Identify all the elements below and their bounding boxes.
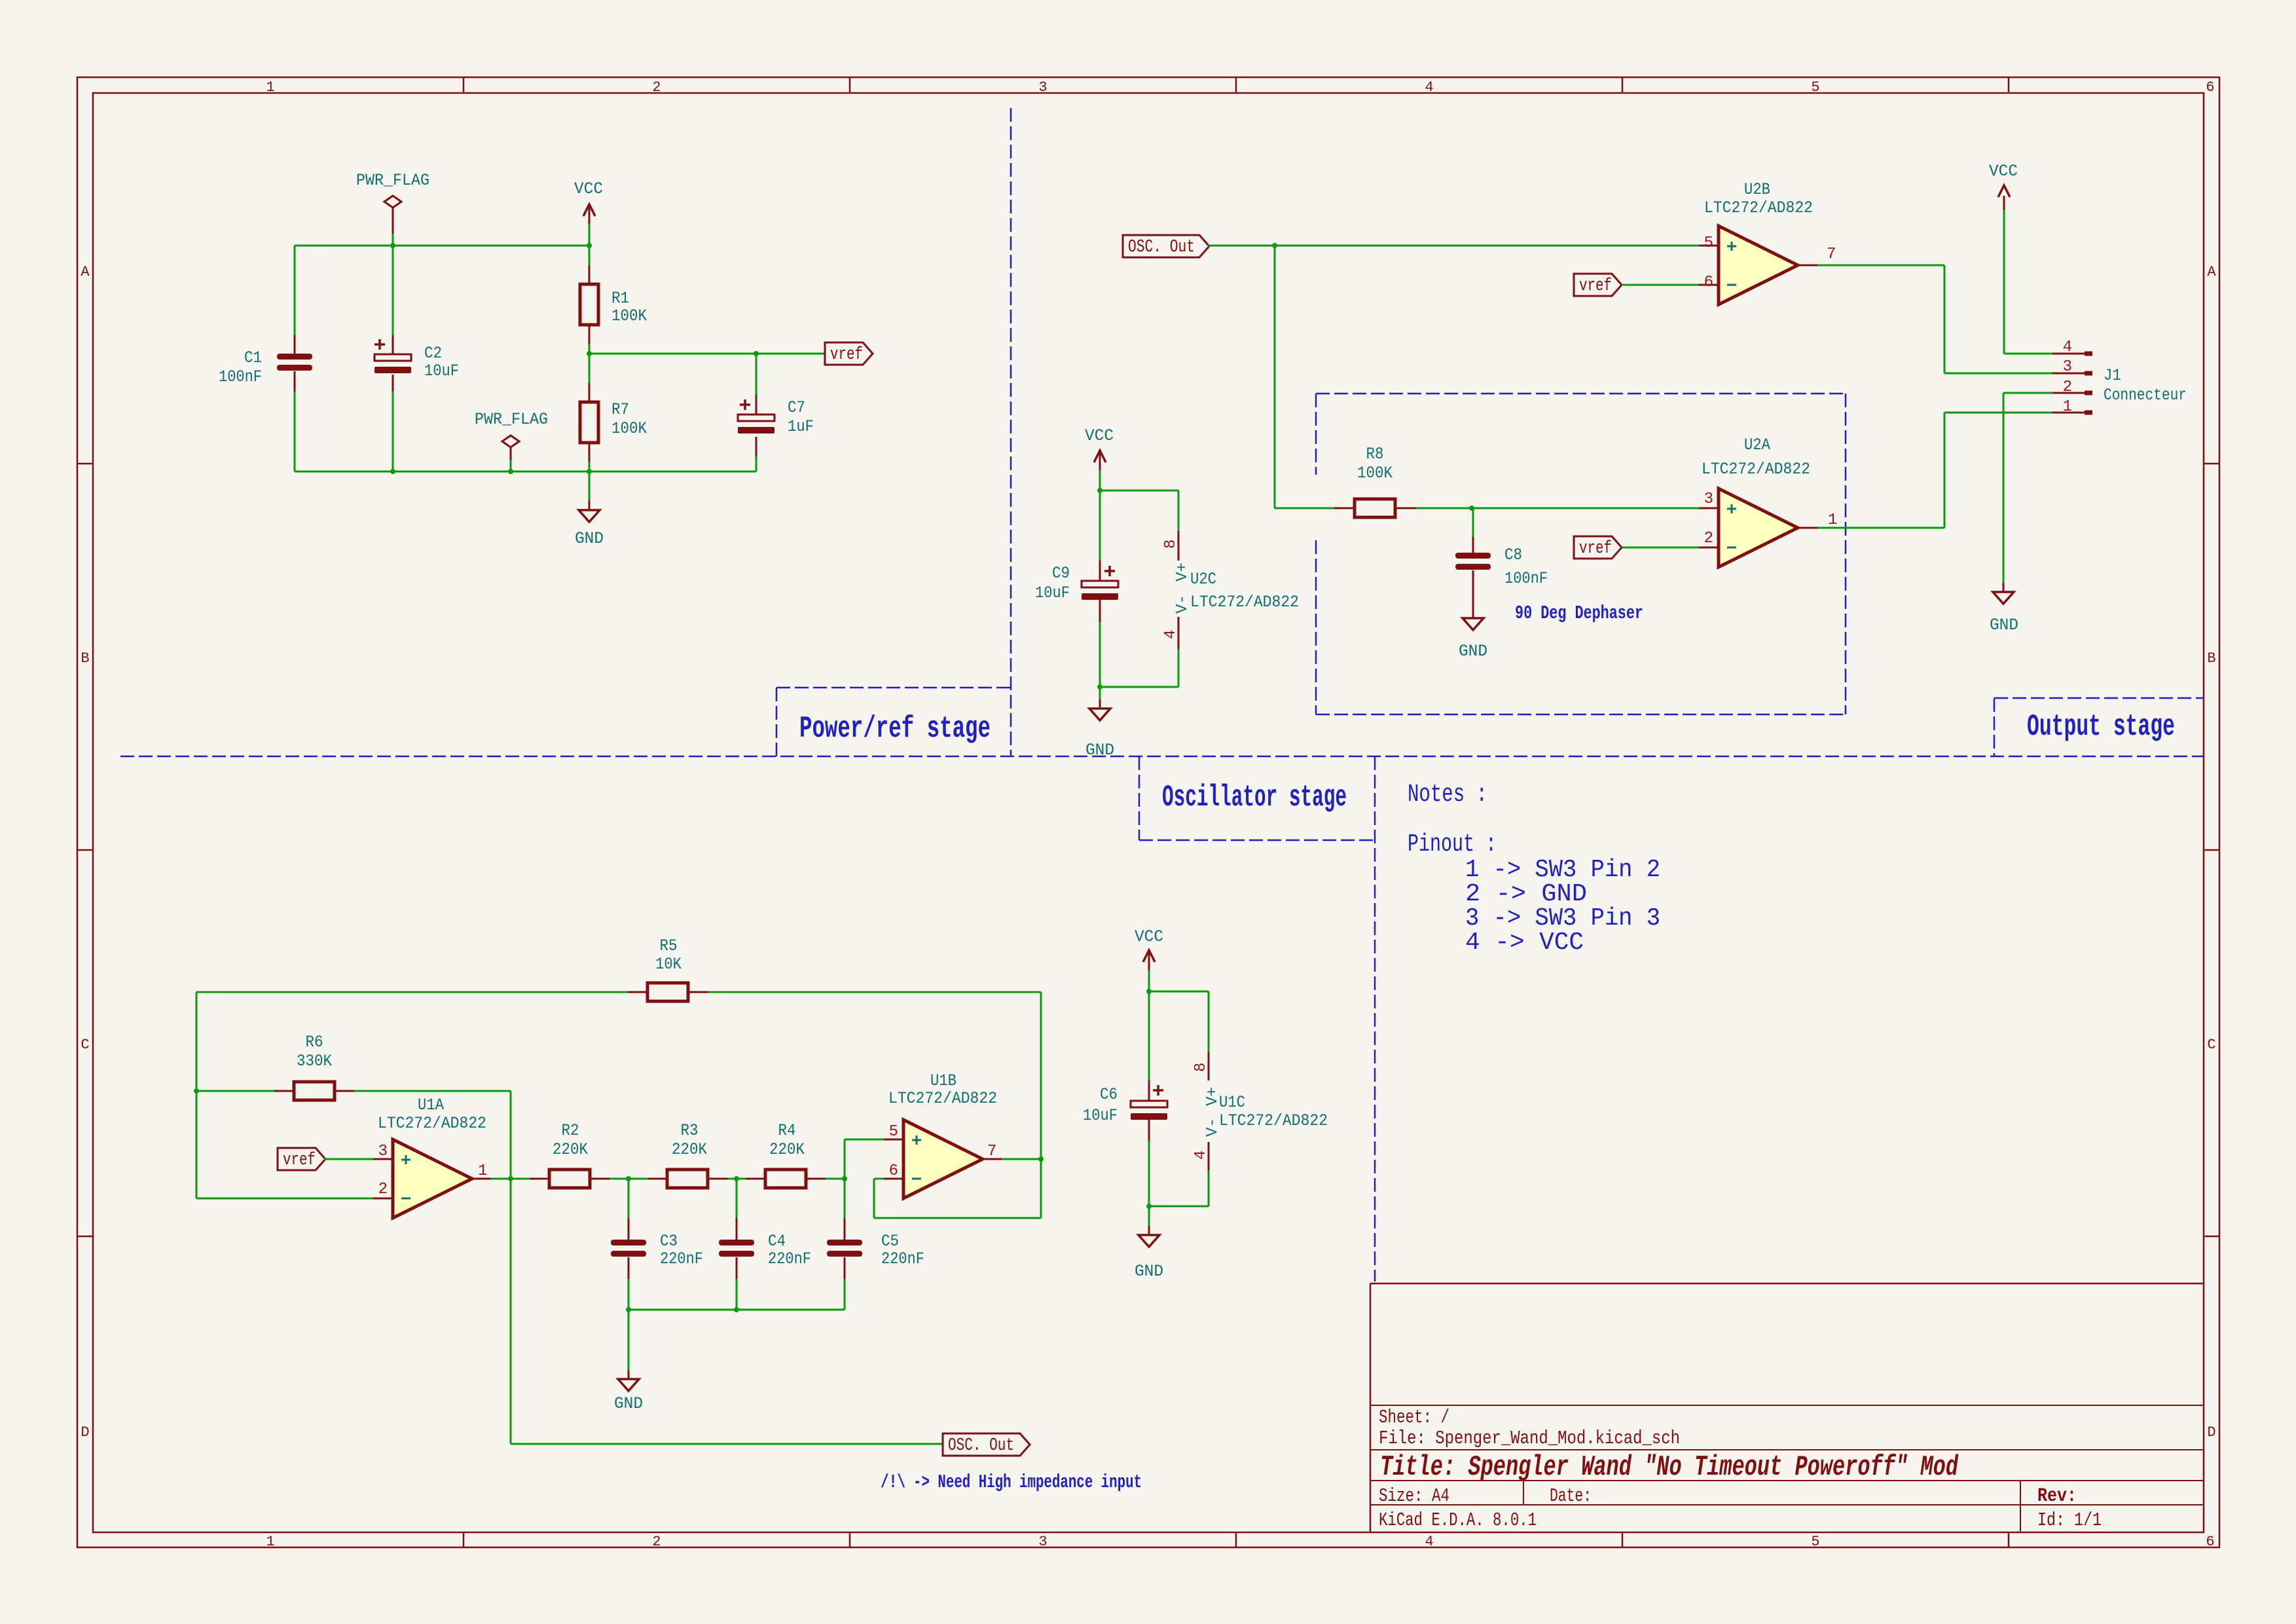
wire vref rail [589, 353, 825, 355]
svg-text:KiCad E.D.A. 8.0.1: KiCad E.D.A. 8.0.1 [1379, 1509, 1537, 1531]
op-amp U2C power pins [1162, 531, 1299, 649]
wire VCC top rail [295, 245, 589, 247]
svg-text:U2C: U2C [1190, 570, 1216, 589]
svg-text:GND: GND [575, 529, 604, 548]
svg-text:A: A [2207, 264, 2216, 280]
power symbol VCC J1 [1989, 162, 2018, 354]
svg-text:8: 8 [1162, 540, 1180, 549]
resistor R7 [580, 354, 647, 471]
svg-text:U1C: U1C [1219, 1093, 1245, 1112]
resistor R4 [746, 1121, 845, 1188]
svg-text:5: 5 [889, 1123, 898, 1141]
svg-text:4: 4 [2063, 339, 2072, 356]
op-amp U1A [373, 1096, 491, 1218]
svg-text:6: 6 [889, 1162, 898, 1180]
svg-text:U1B: U1B [930, 1071, 957, 1090]
resistor R3 [648, 1121, 746, 1188]
wire U1B output and feedback [874, 992, 1041, 1218]
svg-text:7: 7 [1827, 246, 1836, 263]
svg-text:C6: C6 [1100, 1085, 1118, 1104]
svg-text:R5: R5 [660, 936, 678, 955]
svg-text:8: 8 [1192, 1063, 1210, 1072]
svg-text:1: 1 [2063, 398, 2072, 416]
node junction R8 C8 [1469, 506, 1474, 511]
node junction U1B output [1038, 1156, 1044, 1162]
svg-text:LTC272/AD822: LTC272/AD822 [1190, 593, 1299, 612]
svg-text:OSC. Out: OSC. Out [1128, 238, 1195, 257]
resistor R8 [1334, 445, 1699, 517]
svg-text:D: D [2207, 1424, 2215, 1441]
ground symbol GND C9 [1085, 687, 1114, 760]
node junctions C9 [1097, 488, 1102, 690]
svg-text:V-: V- [1174, 595, 1192, 614]
svg-text:1: 1 [478, 1162, 487, 1180]
resistor R6 [196, 1033, 511, 1179]
capacitor C2 [374, 246, 459, 471]
wire U1A output node [491, 1179, 943, 1444]
resistor R5 [628, 936, 708, 1001]
svg-text:5: 5 [1811, 1534, 1819, 1550]
capacitor C1 [219, 246, 312, 471]
svg-text:2: 2 [652, 1534, 661, 1550]
svg-text:LTC272/AD822: LTC272/AD822 [1704, 198, 1813, 217]
resistor R1 [580, 246, 647, 354]
svg-text:vref: vref [283, 1151, 316, 1170]
svg-text:90 Deg Dephaser: 90 Deg Dephaser [1515, 602, 1643, 624]
svg-text:D: D [81, 1424, 89, 1441]
svg-text:220K: 220K [769, 1140, 805, 1159]
svg-text:File: Spenger_Wand_Mod.kicad_s: File: Spenger_Wand_Mod.kicad_sch [1379, 1428, 1680, 1449]
global label vref U1A [278, 1148, 325, 1170]
op-amp U2A [1699, 435, 1837, 567]
svg-text:U2A: U2A [1744, 435, 1770, 454]
svg-text:7: 7 [987, 1143, 996, 1160]
svg-text:C1: C1 [244, 348, 262, 367]
op-amp U2B [1699, 180, 1836, 304]
svg-text:GND: GND [614, 1394, 643, 1413]
svg-text:OSC. Out: OSC. Out [948, 1436, 1014, 1456]
svg-text:LTC272/AD822: LTC272/AD822 [1219, 1111, 1328, 1130]
capacitor C7 [738, 354, 814, 471]
svg-text:Rev:: Rev: [2037, 1485, 2077, 1507]
power flag PWR_FLAG 1 [356, 171, 429, 246]
svg-text:GND: GND [1459, 642, 1487, 661]
svg-text:R3: R3 [681, 1121, 699, 1140]
ground symbol GND C6 [1135, 1206, 1163, 1281]
svg-text:3: 3 [2063, 358, 2072, 376]
svg-text:6: 6 [2206, 79, 2214, 96]
svg-text:R2: R2 [562, 1121, 579, 1140]
svg-text:5: 5 [1811, 79, 1819, 96]
capacitor C9 [1035, 490, 1118, 687]
wire R5 feedback rail [196, 992, 1041, 1198]
svg-text:Output stage: Output stage [2027, 710, 2175, 744]
wire U1C supply loop [1149, 991, 1209, 1206]
svg-text:4: 4 [1192, 1151, 1210, 1160]
svg-text:VCC: VCC [1989, 162, 2018, 181]
svg-text:VCC: VCC [574, 179, 603, 198]
capacitor C3 [611, 1179, 703, 1310]
svg-text:LTC272/AD822: LTC272/AD822 [378, 1114, 486, 1133]
svg-text:B: B [81, 650, 89, 667]
svg-text:Power/ref stage: Power/ref stage [799, 712, 991, 746]
svg-text:220nF: 220nF [768, 1249, 811, 1268]
svg-text:vref: vref [1579, 539, 1612, 559]
svg-text:LTC272/AD822: LTC272/AD822 [1702, 460, 1810, 479]
global label OSC. Out input [1123, 235, 1209, 257]
svg-text:C: C [2207, 1037, 2215, 1053]
svg-text:2: 2 [1704, 530, 1713, 547]
svg-text:B: B [2207, 650, 2215, 667]
global label vref source [825, 342, 873, 365]
svg-text:C4: C4 [768, 1232, 786, 1251]
global label vref U2B [1574, 274, 1622, 296]
svg-text:330K: 330K [297, 1052, 332, 1071]
svg-text:1uF: 1uF [788, 417, 814, 436]
svg-text:PWR_FLAG: PWR_FLAG [475, 410, 548, 429]
wire cap ground rail [629, 1309, 845, 1311]
svg-text:10K: 10K [655, 955, 682, 974]
svg-text:GND: GND [1135, 1262, 1163, 1281]
wire to U1B pin 5 [845, 1139, 884, 1179]
connector J1 [2052, 339, 2187, 416]
svg-text:vref: vref [1579, 276, 1612, 296]
wire U2A output to J1 pin 1 [1817, 413, 2052, 528]
node junction R6 [194, 1088, 199, 1094]
svg-text:3: 3 [1704, 490, 1713, 508]
global label vref U2A [1574, 536, 1622, 559]
svg-text:R7: R7 [611, 400, 629, 419]
svg-text:10uF: 10uF [1083, 1106, 1118, 1125]
svg-text:1: 1 [266, 1534, 274, 1550]
wire J1 pin 2 to GND [2003, 393, 2052, 583]
svg-text:C7: C7 [788, 398, 805, 417]
op-amp U1C power pins [1192, 1052, 1328, 1170]
power symbol VCC 3 [1135, 927, 1163, 991]
capacitor C5 [827, 1179, 924, 1310]
capacitor C8 [1455, 508, 1548, 618]
wire U2C supply loop [1100, 490, 1178, 687]
wire VCC to J1 pin 4 [2004, 353, 2052, 355]
title block [1370, 1283, 2204, 1532]
svg-text:100K: 100K [1357, 464, 1393, 483]
90 deg dephaser dashed box [1316, 394, 1846, 714]
svg-text:C8: C8 [1504, 545, 1522, 564]
svg-text:Size: A4: Size: A4 [1379, 1485, 1449, 1507]
svg-text:R8: R8 [1366, 445, 1384, 464]
ground symbol GND C3 [614, 1310, 643, 1413]
resistor R2 [530, 1121, 648, 1188]
capacitor C4 [719, 1179, 811, 1310]
svg-text:Connecteur: Connecteur [2104, 386, 2187, 405]
node junctions RC chain [508, 1176, 847, 1312]
svg-text:100nF: 100nF [219, 367, 262, 386]
wire vref to U2A pin 2 [1622, 547, 1699, 549]
svg-text:C9: C9 [1052, 564, 1070, 583]
svg-text:3: 3 [1038, 1534, 1047, 1550]
svg-text:4: 4 [1425, 79, 1433, 96]
power symbol VCC 2 [1085, 426, 1114, 490]
svg-text:100K: 100K [611, 419, 647, 438]
svg-text:220nF: 220nF [660, 1249, 703, 1268]
svg-text:R4: R4 [778, 1121, 796, 1140]
svg-text:C2: C2 [424, 344, 442, 363]
svg-text:1: 1 [1828, 511, 1837, 529]
svg-text:220K: 220K [553, 1140, 588, 1159]
svg-text:1: 1 [266, 79, 274, 96]
ground symbol GND J1 [1990, 583, 2018, 635]
wire GND bottom rail [295, 471, 756, 473]
wire vref to U1A pin 3 [324, 1158, 373, 1160]
svg-text:Oscillator stage: Oscillator stage [1162, 781, 1347, 815]
svg-text:6: 6 [1704, 274, 1713, 291]
capacitor C6 [1083, 991, 1167, 1206]
svg-text:10uF: 10uF [1035, 583, 1070, 602]
svg-text:PWR_FLAG: PWR_FLAG [356, 171, 429, 190]
svg-text:220nF: 220nF [881, 1249, 924, 1268]
svg-text:C3: C3 [660, 1232, 678, 1251]
wire OSC out to U2B pin 5 [1208, 245, 1699, 247]
ground symbol GND 1 [575, 471, 604, 548]
svg-text:Date:: Date: [1550, 1485, 1592, 1507]
ground symbol GND C8 [1459, 609, 1487, 661]
svg-text:C: C [81, 1037, 89, 1053]
svg-text:U1A: U1A [418, 1096, 444, 1115]
power flag PWR_FLAG 2 [475, 410, 548, 471]
stage labels [799, 602, 2175, 815]
node junctions power stage [390, 243, 759, 474]
high impedance warning note [881, 1471, 1142, 1493]
svg-text:2: 2 [2063, 378, 2072, 396]
svg-text:5: 5 [1704, 234, 1713, 252]
notes text [1408, 781, 1660, 957]
svg-text:10uF: 10uF [424, 361, 459, 380]
svg-text:4: 4 [1425, 1534, 1433, 1550]
svg-text:vref: vref [830, 345, 863, 365]
svg-text:220K: 220K [672, 1140, 707, 1159]
svg-text:V+: V+ [1174, 563, 1192, 581]
power symbol VCC 1 [574, 179, 603, 246]
node junction osc [1272, 243, 1277, 248]
svg-text:R1: R1 [611, 289, 629, 308]
wire U2B output to J1 pin 3 [1817, 265, 2052, 373]
svg-text:Notes :: Notes : [1408, 781, 1487, 809]
stage separator dashed lines [120, 108, 2203, 1282]
svg-text:J1: J1 [2104, 366, 2121, 385]
svg-text:3: 3 [1038, 79, 1047, 96]
svg-text:Id: 1/1: Id: 1/1 [2037, 1509, 2102, 1531]
svg-text:-> Need High impedance input: -> Need High impedance input [913, 1471, 1142, 1493]
svg-text:Title: Spengler Wand "No Timeo: Title: Spengler Wand "No Timeout Powerof… [1380, 1451, 1959, 1484]
svg-text:2: 2 [378, 1181, 388, 1198]
svg-text:U2B: U2B [1744, 180, 1770, 199]
svg-text:GND: GND [1990, 616, 2018, 635]
node junctions C6 [1146, 989, 1152, 1209]
svg-text:VCC: VCC [1085, 426, 1114, 445]
svg-text:Sheet: /: Sheet: / [1379, 1407, 1449, 1428]
svg-text:6: 6 [2206, 1534, 2214, 1550]
op-amp U1B [884, 1071, 1002, 1198]
svg-text:3: 3 [378, 1143, 388, 1160]
svg-text:A: A [81, 264, 90, 280]
svg-text:100K: 100K [611, 306, 647, 325]
svg-text:/!\: /!\ [881, 1471, 905, 1493]
svg-text:4: 4 [1162, 630, 1180, 639]
svg-text:LTC272/AD822: LTC272/AD822 [888, 1089, 997, 1108]
svg-text:C5: C5 [881, 1232, 899, 1251]
wire osc drop to R8 [1275, 246, 1334, 508]
svg-text:R6: R6 [306, 1033, 323, 1052]
svg-text:GND: GND [1085, 741, 1114, 760]
svg-text:100nF: 100nF [1504, 569, 1548, 588]
svg-text:2: 2 [652, 79, 661, 96]
svg-text:4 -> VCC: 4 -> VCC [1465, 929, 1584, 957]
global label OSC. Out output [943, 1433, 1030, 1456]
svg-text:Pinout :: Pinout : [1408, 830, 1497, 858]
wire vref to U2B pin 6 [1622, 284, 1699, 286]
svg-text:VCC: VCC [1135, 927, 1163, 946]
